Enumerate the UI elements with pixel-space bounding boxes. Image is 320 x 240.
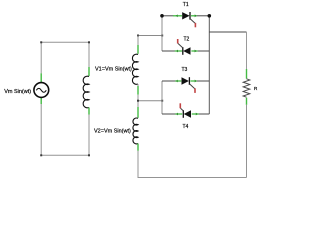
- node tap right: [161, 100, 163, 102]
- ac source top lead (green): [40, 73, 42, 82]
- wire secondary top vertical: [137, 36, 139, 46]
- thyristor T3: [162, 77, 209, 93]
- wire secondary top horizontal: [138, 35, 162, 37]
- wire primary loop right lower: [88, 115, 90, 156]
- svg-text:V2=Vm Sin(wt): V2=Vm Sin(wt): [94, 128, 131, 134]
- wire primary loop left lower: [40, 104, 42, 155]
- node corner secondary top: [137, 35, 139, 37]
- svg-text:Vm Sin(wt): Vm Sin(wt): [4, 89, 31, 95]
- thyristor T4: [162, 103, 209, 118]
- svg-text:T3: T3: [182, 67, 188, 73]
- wire primary loop top: [41, 41, 89, 43]
- svg-text:T1: T1: [183, 2, 189, 8]
- node tap left: [137, 100, 139, 102]
- wire load tap: [209, 31, 246, 33]
- node corner bottom-right: [88, 154, 90, 156]
- wire bridge left vertical upper (T1-T2): [161, 16, 163, 51]
- wire primary loop right upper: [88, 42, 90, 67]
- svg-text:V1=Vm Sin(wt): V1=Vm Sin(wt): [95, 66, 132, 72]
- wire load branch vertical: [246, 32, 248, 69]
- svg-text:T4: T4: [183, 124, 189, 130]
- wire secondary middle: [137, 95, 139, 107]
- node corner top-left: [40, 41, 42, 43]
- thyristor T1: [162, 12, 209, 27]
- node junction left top: [160, 14, 164, 18]
- node corner top-right: [88, 41, 90, 43]
- svg-text:T2: T2: [184, 36, 190, 42]
- inductor V2 secondary: [133, 107, 138, 151]
- wire bridge left vertical lower (T3-T4): [161, 81, 163, 114]
- wire secondary bottom vertical: [138, 151, 247, 178]
- inductor V1 secondary: [132, 45, 138, 95]
- wire bridge right bus: [208, 16, 210, 114]
- thyristor T2: [162, 39, 209, 55]
- ac source Vm Sin(wt): [34, 83, 49, 98]
- node junction right top: [208, 14, 212, 18]
- node junction secondary top right: [161, 35, 163, 37]
- inductor primary winding: [83, 67, 89, 115]
- wire primary loop bottom: [41, 154, 89, 156]
- wire primary loop left upper: [40, 42, 42, 73]
- wire center tap: [138, 100, 162, 102]
- resistor R: [243, 69, 250, 178]
- ac source bottom lead (green): [40, 98, 42, 104]
- node corner bottom-left: [40, 154, 42, 156]
